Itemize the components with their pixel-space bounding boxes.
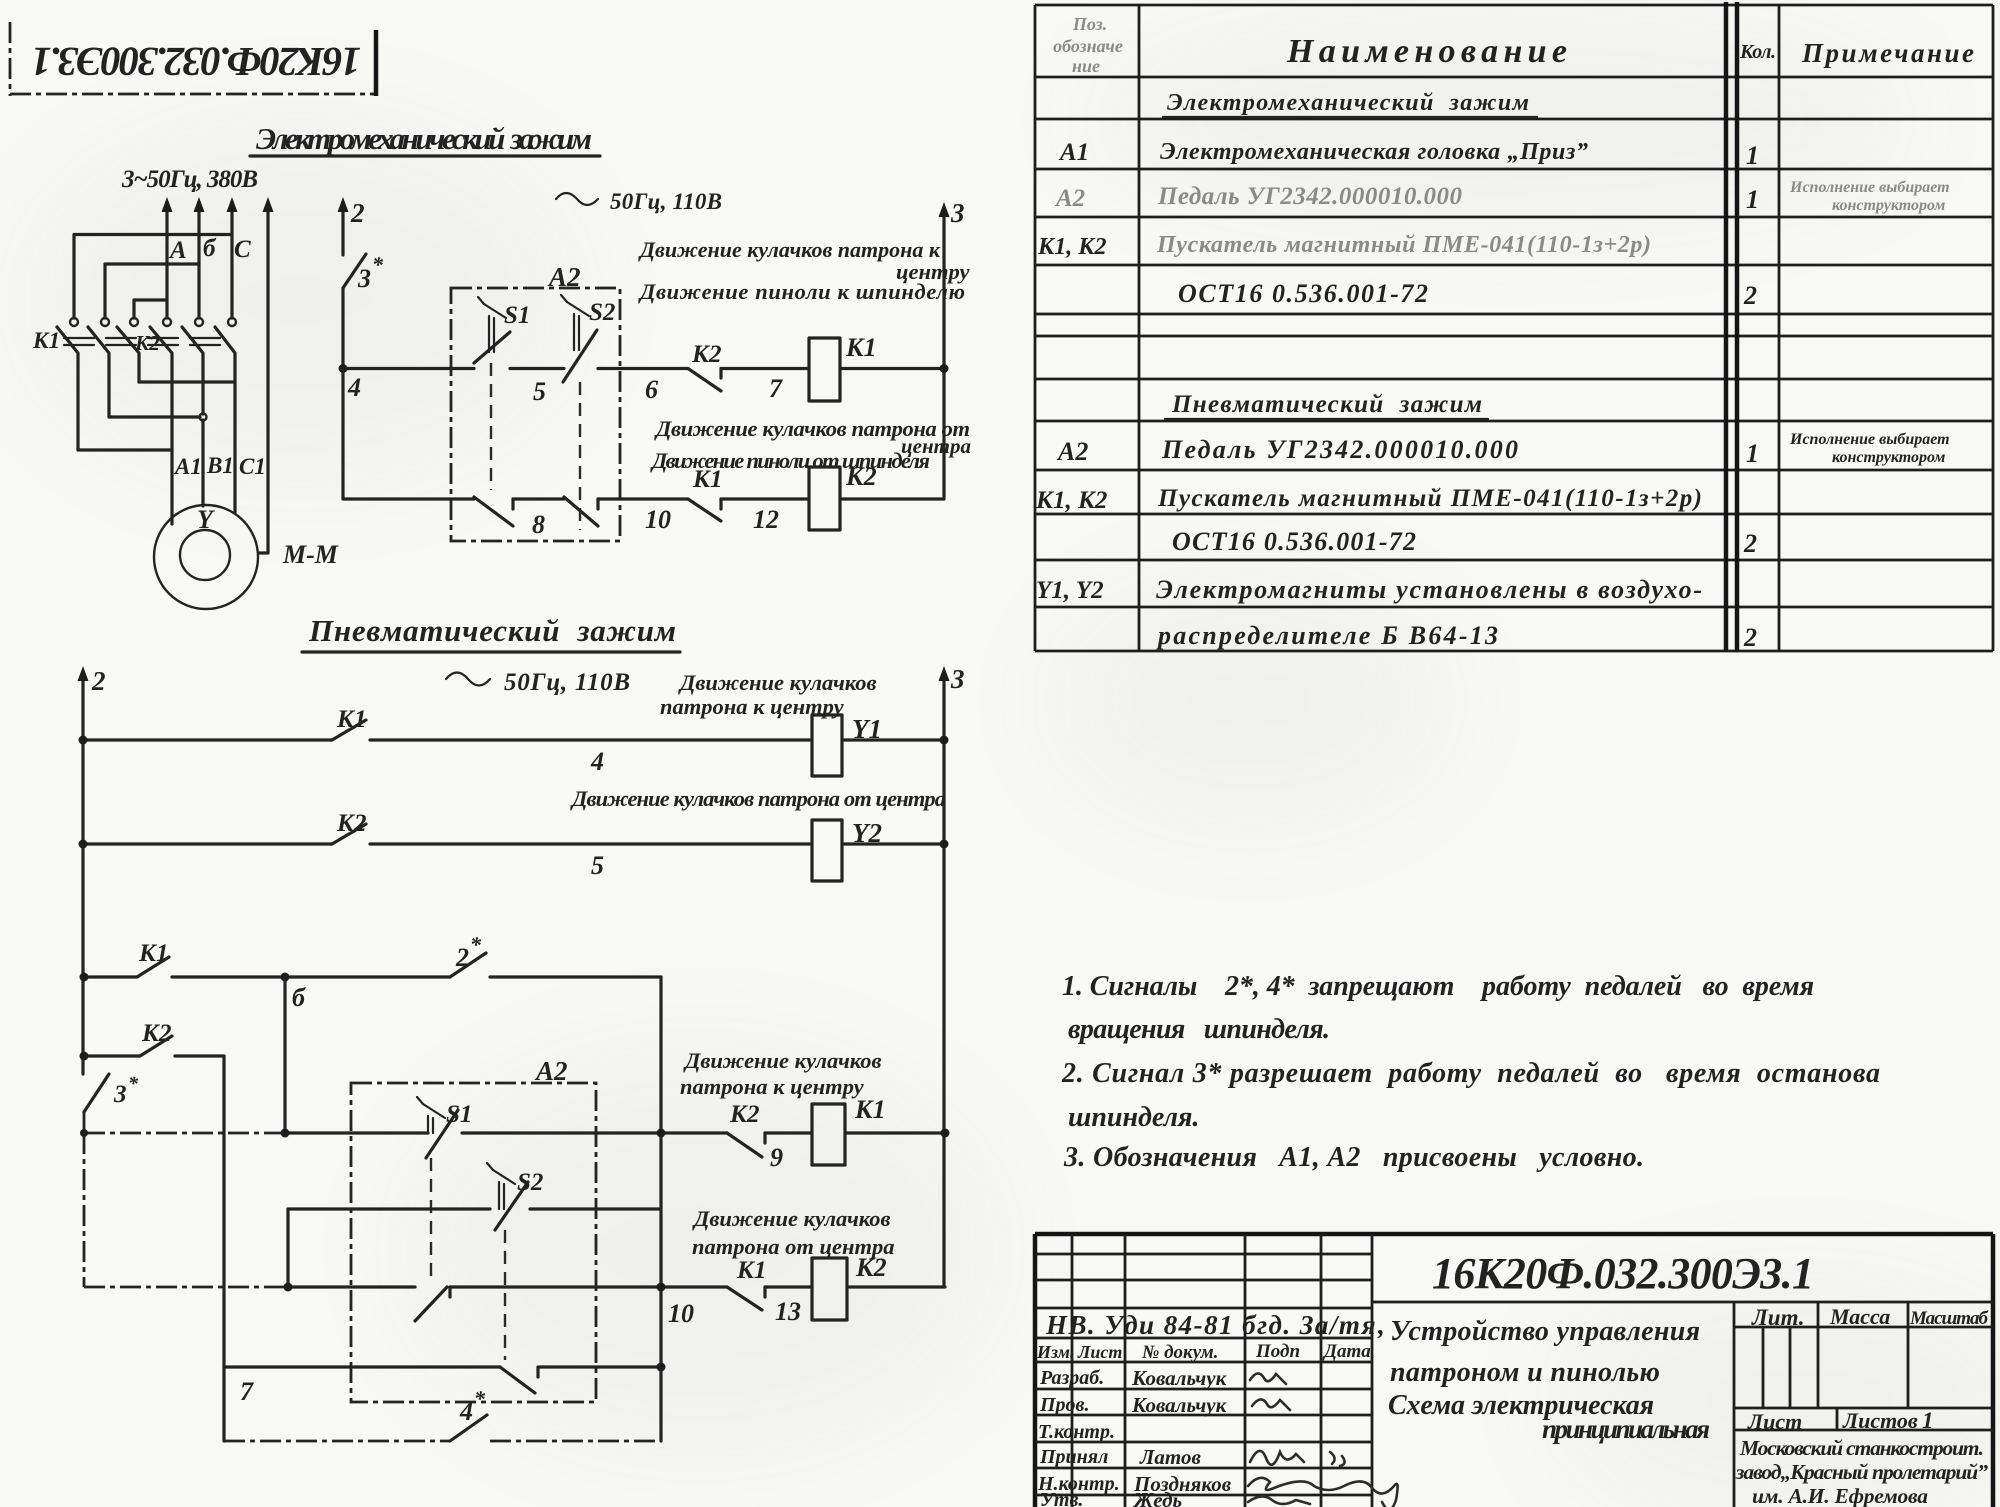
svg-text:Педаль УГ2342.000010.000: Педаль УГ2342.000010.000 <box>1161 435 1518 464</box>
svg-text:Электромеханический зажим: Электромеханический зажим <box>1167 90 1529 116</box>
bottom bracket pole1-pole4 <box>78 448 172 451</box>
pedal switch S1 (lower) <box>417 1097 472 1158</box>
text дв. кулачков патрона от центра <box>654 416 971 458</box>
contact 3* on rail 2 <box>343 252 384 369</box>
contact pole 5 <box>182 318 203 414</box>
svg-text:Движение пиноли к шпинделю: Движение пиноли к шпинделю <box>638 279 965 304</box>
svg-text:4: 4 <box>347 373 361 402</box>
pedal linkage S1 (upper) <box>490 363 492 490</box>
rung wire 8-10-12 <box>343 369 944 500</box>
supply phase wire A with arrow <box>162 197 173 318</box>
svg-text:К2: К2 <box>141 1020 171 1047</box>
table row A2 pedal (pneumatic) <box>1056 431 1950 468</box>
svg-text:НВ. Уди 84-81 бгд. За/тя‚: НВ. Уди 84-81 бгд. За/тя‚ <box>1045 1310 1386 1340</box>
svg-text:16К20Ф.032.300Э3.1: 16К20Ф.032.300Э3.1 <box>1432 1249 1814 1298</box>
contact 8 (S1 break) <box>474 497 545 539</box>
svg-text:3. Обозначения А1, А2 прис: 3. Обозначения А1, А2 присвоены условно. <box>1063 1142 1644 1173</box>
svg-text:9: 9 <box>770 1143 783 1172</box>
text движение кулачков патрона к центру (Y1) <box>660 670 877 719</box>
node A label <box>168 237 187 264</box>
svg-text:Движение кулачков: Движение кулачков <box>692 1206 891 1231</box>
svg-text:Y1: Y1 <box>852 714 882 744</box>
svg-text:3~50Гц, 380В: 3~50Гц, 380В <box>121 166 258 193</box>
svg-text:Поз.: Поз. <box>1072 14 1107 34</box>
svg-text:К1, К2: К1, К2 <box>1037 234 1107 260</box>
svg-text:Примечание: Примечание <box>1801 38 1974 68</box>
svg-text:К1: К1 <box>692 466 722 493</box>
wire crossover bracket 3 <box>134 300 167 318</box>
svg-text:К2: К2 <box>855 1253 887 1282</box>
svg-text:16К20Ф.032.300Э3.1: 16К20Ф.032.300Э3.1 <box>31 39 361 85</box>
svg-text:*: * <box>470 932 482 957</box>
table row K1K2 starter <box>1037 232 1651 260</box>
rail dash to row A <box>83 1112 86 1133</box>
svg-text:А2: А2 <box>1056 437 1088 466</box>
wire crossover bracket 2 <box>105 264 199 318</box>
svg-text:Утв.: Утв. <box>1040 1489 1083 1507</box>
table header Поз обозначение <box>1053 14 1123 76</box>
svg-text:б: б <box>292 983 306 1012</box>
table row OST16 (pneumatic) <box>1172 527 1757 558</box>
svg-text:Электромеханическая головка „: Электромеханическая головка „Приз” <box>1160 139 1588 165</box>
row 7 wire <box>224 1363 666 1372</box>
svg-text:К2: К2 <box>691 341 721 368</box>
svg-text:*: * <box>372 252 384 277</box>
svg-text:4: 4 <box>459 1397 473 1426</box>
svg-text:Кол.: Кол. <box>1739 41 1776 63</box>
svg-text:Движение пиноли от шпинделя: Движение пиноли от шпинделя <box>650 448 930 473</box>
contactor K1 label <box>32 328 60 353</box>
text дв. кулачков патрона к центру <box>638 237 970 284</box>
node B1 label <box>206 453 234 478</box>
row 4* dash-dot wire <box>224 1440 661 1443</box>
row Н.контр Поздняков <box>1037 1472 1398 1507</box>
text движение кулачков патрона к центру (row A) <box>680 1048 882 1099</box>
svg-text:13: 13 <box>775 1297 801 1326</box>
svg-text:2: 2 <box>1743 529 1757 558</box>
svg-text:Электромеханический зажим: Электромеханический зажим <box>256 121 592 156</box>
node 5 label <box>533 377 546 406</box>
svg-text:7: 7 <box>240 1377 254 1406</box>
table row K1K2 starter (pneumatic) <box>1035 485 1702 514</box>
parts table grid <box>1035 2 1993 651</box>
contact S2 break (rung 2) <box>564 497 598 526</box>
svg-text:А2: А2 <box>1054 185 1085 212</box>
supply phase wire C with arrow <box>227 197 238 318</box>
svg-text:Изм.: Изм. <box>1036 1342 1074 1362</box>
svg-text:Лист: Лист <box>1747 1409 1802 1434</box>
svg-text:*: * <box>128 1073 139 1095</box>
table header Примечание <box>1801 38 1974 68</box>
contact 2* <box>450 932 486 977</box>
svg-text:S1: S1 <box>446 1101 472 1128</box>
pedal switch S2 (lower) <box>487 1163 543 1230</box>
svg-text:7: 7 <box>769 374 783 403</box>
node 5 label (pneumatic) <box>591 851 604 880</box>
svg-text:К1: К1 <box>854 1095 886 1124</box>
node 4 label (pneumatic) <box>590 747 604 776</box>
svg-text:3: 3 <box>113 1081 127 1108</box>
contact pole 1 <box>57 318 78 450</box>
svg-text:2: 2 <box>1743 281 1757 310</box>
supply wire M with arrow <box>259 197 274 553</box>
svg-text:Пневматический зажим: Пневматический зажим <box>308 613 676 648</box>
rung Y2 wire <box>79 840 949 849</box>
svg-text:S2: S2 <box>589 299 615 326</box>
pedal box A2 (upper) <box>451 262 620 541</box>
svg-text:2: 2 <box>1743 623 1757 652</box>
pedal box A2 (lower) <box>351 1056 596 1402</box>
svg-text:Дата: Дата <box>1322 1341 1371 1362</box>
bottom bracket pole2-pole5 <box>109 414 207 421</box>
table row OST16 <box>1178 279 1757 310</box>
svg-text:М-М: М-М <box>282 540 339 569</box>
pedal linkage S2 (lower) <box>504 1230 506 1360</box>
cell Масса <box>1829 1304 1890 1329</box>
svg-text:шпинделя.: шпинделя. <box>1068 1102 1199 1133</box>
heading Пневматический зажим <box>302 613 680 652</box>
svg-text:Масштаб: Масштаб <box>1909 1308 1990 1329</box>
svg-text:А: А <box>168 237 187 264</box>
node 7 label <box>769 374 783 403</box>
svg-text:К2: К2 <box>845 462 877 491</box>
svg-text:Разраб.: Разраб. <box>1039 1367 1104 1389</box>
svg-text:Пускатель магнитный ПМЕ-041(: Пускатель магнитный ПМЕ-041(110-1з+2р) <box>1157 485 1702 512</box>
node C label <box>234 236 251 263</box>
stub down to row B <box>286 1209 289 1287</box>
note 1 line 1 <box>1062 971 1814 1002</box>
pedal switch S1 (upper) <box>474 297 530 363</box>
wire corner 8 down <box>659 977 662 1441</box>
svg-text:распределителе Б В64-13: распределителе Б В64-13 <box>1156 621 1498 650</box>
row Т.контр <box>1038 1421 1115 1443</box>
svg-text:10: 10 <box>668 1299 694 1328</box>
svg-text:Пров.: Пров. <box>1039 1394 1090 1416</box>
note 2 line 2 <box>1068 1102 1199 1133</box>
svg-text:50Гц, 110В: 50Гц, 110В <box>504 669 630 696</box>
cell Листов 1 <box>1842 1408 1934 1433</box>
svg-text:С: С <box>234 236 251 263</box>
svg-text:4: 4 <box>590 747 604 776</box>
factory name <box>1735 1436 1988 1507</box>
contact K2 (rung 1) <box>688 341 721 391</box>
svg-text:Листов: Листов <box>1842 1408 1918 1433</box>
header Изм Лист Nдокум Подп Дата <box>1036 1341 1371 1363</box>
node 2 rail (electromech) <box>338 197 365 255</box>
wire node6 down <box>283 977 286 1133</box>
node 6 label (bottom) <box>292 983 306 1012</box>
svg-text:С1: С1 <box>239 454 266 479</box>
contact pole 6 <box>215 318 236 382</box>
coil K2 (row B) <box>812 1253 887 1320</box>
svg-text:5: 5 <box>591 851 604 880</box>
motor feed wire C1 <box>233 382 236 512</box>
svg-text:завод„Красный пролетарий”: завод„Красный пролетарий” <box>1735 1460 1988 1484</box>
svg-text:ние: ние <box>1072 56 1100 76</box>
wire crossover bracket 1 <box>74 235 232 319</box>
svg-text:Латов: Латов <box>1139 1445 1201 1469</box>
contact K1 (rung Y1) <box>332 706 366 740</box>
text дв. пиноли от шпинделя <box>650 448 930 473</box>
svg-text:2. Сигнал 3* разрешает рабо: 2. Сигнал 3* разрешает работу педалей во… <box>1061 1058 1880 1089</box>
contact K1 (rung 2) <box>688 466 722 521</box>
node C1 label <box>239 454 266 479</box>
svg-text:3: 3 <box>950 664 965 694</box>
node 9 label <box>770 1143 783 1172</box>
svg-text:Лит.: Лит. <box>1751 1305 1805 1330</box>
contact K1 (row B) <box>727 1257 766 1310</box>
svg-text:Педаль УГ2342.000010.000: Педаль УГ2342.000010.000 <box>1157 183 1463 210</box>
contact K2 (rung Y2) <box>332 810 366 844</box>
svg-text:3: 3 <box>950 198 965 228</box>
text дв. пиноли к шпинделю <box>638 279 965 304</box>
contact pole 2 <box>88 318 109 417</box>
svg-text:5: 5 <box>533 377 546 406</box>
svg-text:Y2: Y2 <box>852 818 882 848</box>
svg-text:8: 8 <box>532 510 545 539</box>
rung 6-8 wire <box>80 973 662 982</box>
svg-text:обозначе: обозначе <box>1053 36 1123 56</box>
svg-text:К1: К1 <box>32 328 60 353</box>
stamp text 16К20Ф.032.300Э3.1 (rotated 180) <box>31 39 361 85</box>
contact pole 3 <box>117 318 139 382</box>
svg-text:вращения шпинделя.: вращения шпинделя. <box>1068 1014 1330 1045</box>
contact K1 (rung 6) <box>137 940 169 977</box>
svg-text:2: 2 <box>350 198 365 228</box>
rung wire 4-5-6-7 <box>343 367 944 370</box>
pedal linkage S2 (upper) <box>579 382 581 530</box>
table row: Электромеханический зажим <box>1163 90 1537 117</box>
svg-text:Движение кулачков: Движение кулачков <box>683 1048 882 1073</box>
note 3 <box>1063 1142 1644 1173</box>
svg-text:6: 6 <box>645 375 658 404</box>
label ~50Гц 110В (electromech) <box>556 189 722 214</box>
svg-text:А2: А2 <box>547 262 581 292</box>
note 1 line 2 <box>1068 1014 1330 1045</box>
table row: Пневматический зажим <box>1165 391 1488 419</box>
cell Лист <box>1747 1409 1802 1434</box>
node 3 junction dot <box>940 364 949 373</box>
svg-text:Московский станкостроит.: Московский станкостроит. <box>1739 1436 1984 1460</box>
svg-text:им. А.И. Ефремова: им. А.И. Ефремова <box>1752 1484 1928 1507</box>
table row распределителе <box>1156 621 1757 652</box>
node 6 label <box>645 375 658 404</box>
row Утв Жедь <box>1040 1488 1310 1507</box>
coil K1 (row A) <box>812 1095 886 1165</box>
node B label <box>203 235 217 262</box>
node 12 label <box>753 505 779 534</box>
contact 4* <box>450 1386 487 1441</box>
node 10 label (bottom) <box>668 1299 694 1328</box>
svg-text:Исполнение выбирает: Исполнение выбирает <box>1789 431 1950 448</box>
node 2 rail (pneumatic) <box>78 666 106 1074</box>
svg-text:В1: В1 <box>206 453 234 478</box>
svg-text:принципиальная: принципиальная <box>1542 1414 1710 1444</box>
contactor K2 label <box>134 331 160 355</box>
contact pole 4 <box>150 318 172 450</box>
node 7 label (bottom) <box>240 1377 254 1406</box>
svg-text:К1: К1 <box>138 940 168 967</box>
contact S1 break (row B) <box>415 1287 450 1321</box>
revision handwriting row <box>1045 1310 1386 1340</box>
svg-text:1: 1 <box>1922 1408 1934 1433</box>
svg-text:Пускатель магнитный ПМЕ-041(: Пускатель магнитный ПМЕ-041(110-1з+2р) <box>1156 232 1651 258</box>
node 10 label (rung 2) <box>645 505 671 534</box>
svg-text:А2: А2 <box>534 1056 568 1086</box>
bottom bracket pole3-pole6 <box>139 380 235 383</box>
row Пров Ковальчук <box>1039 1393 1290 1417</box>
stamp frame top-left <box>10 22 376 96</box>
cell Масштаб <box>1909 1308 1990 1329</box>
svg-text:ОСТ16 0.536.001-72: ОСТ16 0.536.001-72 <box>1178 279 1428 308</box>
svg-text:S2: S2 <box>517 1169 543 1196</box>
row Принял Латов <box>1039 1445 1345 1469</box>
svg-text:1: 1 <box>1746 439 1759 468</box>
pedal linkage S1 (lower) <box>430 1158 432 1280</box>
pedal switch S2 (upper) <box>561 295 615 382</box>
rung Y1 wire <box>79 736 949 745</box>
contact K2 (rung) <box>140 1020 172 1056</box>
electromagnet Y2 <box>812 818 882 881</box>
svg-text:12: 12 <box>753 505 779 534</box>
node 3 rail (electromech) <box>939 198 965 497</box>
svg-text:А1: А1 <box>1058 139 1089 166</box>
svg-text:10: 10 <box>645 505 671 534</box>
title block outer frame <box>1035 1234 1993 1507</box>
svg-text:Жедь: Жедь <box>1132 1488 1182 1507</box>
svg-text:1: 1 <box>1746 141 1759 170</box>
svg-text:1. Сигналы 2*, 4* запрещаю: 1. Сигналы 2*, 4* запрещают работу педал… <box>1062 971 1814 1002</box>
row A wire <box>281 1129 950 1138</box>
label ~50Гц 110В (pneumatic) <box>446 669 630 696</box>
contact 3* (bottom rail) <box>84 1073 139 1112</box>
svg-text:Лист: Лист <box>1077 1342 1122 1362</box>
svg-text:*: * <box>474 1386 486 1411</box>
svg-text:Принял: Принял <box>1039 1446 1108 1468</box>
mechanical linkage dashes <box>64 338 228 345</box>
svg-text:Масса: Масса <box>1829 1304 1890 1329</box>
svg-text:ОСТ16 0.536.001-72: ОСТ16 0.536.001-72 <box>1172 527 1416 556</box>
svg-text:К1: К1 <box>845 333 877 362</box>
node 13 label <box>775 1297 801 1326</box>
node 4 <box>339 364 362 402</box>
svg-text:К1, К2: К1, К2 <box>1035 487 1107 514</box>
scan tone <box>0 0 1 1</box>
contact S2 break (row 7) <box>500 1367 538 1393</box>
motor feed wire A1 <box>170 450 173 524</box>
svg-text:конструктором: конструктором <box>1832 449 1945 466</box>
document code 16К20Ф.032.300Э3.1 <box>1432 1249 1814 1298</box>
svg-text:Движение кулачков: Движение кулачков <box>678 670 877 695</box>
rung K2 wire <box>80 1052 225 1061</box>
text движение кулачков патрона от центра (Y2) <box>570 786 946 811</box>
table header Кол <box>1739 41 1776 63</box>
node A1 label <box>173 454 202 479</box>
motor feed wire B1 <box>201 420 204 506</box>
svg-text:патрона к центру: патрона к центру <box>680 1074 865 1099</box>
svg-text:Ковальчук: Ковальчук <box>1131 1366 1228 1390</box>
heading Электромеханический зажим <box>250 121 600 156</box>
svg-text:Исполнение выбирает: Исполнение выбирает <box>1789 179 1950 196</box>
label 3~50Гц,380В <box>121 166 258 193</box>
motor label M-M <box>282 540 339 569</box>
title block grid <box>1035 1234 1993 1507</box>
table row A1 head <box>1058 139 1759 170</box>
motor M1 <box>154 505 258 609</box>
table row A2 pedal (faint) <box>1054 179 1950 214</box>
svg-text:Пневматический зажим: Пневматический зажим <box>1171 391 1482 418</box>
svg-text:S1: S1 <box>504 302 530 329</box>
svg-text:Т.контр.: Т.контр. <box>1038 1421 1115 1443</box>
row Разраб Ковальчук <box>1039 1366 1286 1390</box>
electromagnet Y1 <box>812 714 882 776</box>
svg-text:№ докум.: № докум. <box>1141 1342 1218 1363</box>
svg-text:К2: К2 <box>729 1101 759 1128</box>
row A dash-dot left part <box>80 1129 285 1137</box>
row B dash-dot left part <box>84 1133 288 1287</box>
title Устройство управления патроном и пинолью <box>1388 1316 1710 1444</box>
cell Лит <box>1751 1305 1805 1330</box>
svg-text:Подп: Подп <box>1255 1341 1300 1362</box>
svg-text:Ковальчук: Ковальчук <box>1131 1393 1228 1417</box>
row B wire <box>284 1283 946 1292</box>
svg-text:патроном и пинолью: патроном и пинолью <box>1390 1357 1660 1388</box>
S2 stub row wire <box>288 1207 661 1210</box>
svg-text:Y1, Y2: Y1, Y2 <box>1036 577 1104 604</box>
svg-text:50Гц, 110В: 50Гц, 110В <box>610 189 722 214</box>
svg-text:Y: Y <box>197 505 215 534</box>
wire K2 corner down <box>222 1056 225 1441</box>
svg-text:Движение кулачков патрона о: Движение кулачков патрона от центра <box>570 786 946 811</box>
coil K2 <box>809 462 877 530</box>
contact K2 (row A) <box>727 1101 765 1157</box>
svg-text:б: б <box>203 235 217 262</box>
table row Y1Y2 <box>1036 575 1702 604</box>
supply phase wire B with arrow <box>194 197 205 318</box>
table header Наименование <box>1286 33 1567 70</box>
text движение кулачков патрона от центра (row B) <box>692 1206 895 1259</box>
svg-text:1: 1 <box>1746 185 1759 214</box>
note 2 line 1 <box>1061 1058 1880 1089</box>
svg-text:А1: А1 <box>173 454 202 479</box>
svg-text:К1: К1 <box>736 1257 766 1284</box>
svg-text:Устройство управления: Устройство управления <box>1390 1316 1700 1347</box>
svg-text:конструктором: конструктором <box>1832 197 1945 214</box>
node 3 rail (pneumatic) <box>939 664 965 1287</box>
coil K1 <box>809 333 877 401</box>
svg-text:3: 3 <box>357 264 371 293</box>
svg-text:2: 2 <box>91 666 106 696</box>
